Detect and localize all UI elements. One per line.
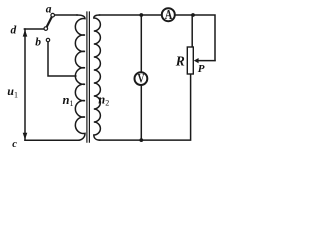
top wire secondary to ammeter: [100, 14, 162, 16]
transformer secondary winding n2: [94, 15, 101, 140]
resistor branch wire from junction: [191, 15, 193, 48]
svg-text:V: V: [138, 72, 145, 86]
resistor lower lead and bottom wire to voltmeter junction: [100, 74, 191, 140]
top wire a to primary winding: [55, 14, 77, 16]
contact a circle: [51, 13, 55, 17]
voltmeter branch upper wire: [140, 15, 142, 73]
contact b circle: [46, 38, 49, 41]
wiper wire to arrow: [198, 60, 215, 62]
wiper arrow P: [194, 58, 199, 63]
wire left rail d-c: [24, 29, 26, 140]
switch pivot circle: [44, 27, 48, 31]
top wire ammeter to top-right corner, right drop: [174, 15, 215, 60]
junction dot voltmeter top: [139, 13, 143, 17]
svg-text:P: P: [198, 63, 205, 75]
transformer core line right: [88, 12, 90, 142]
svg-text:c: c: [12, 139, 17, 150]
svg-text:R: R: [175, 53, 185, 68]
voltmeter branch lower wire: [140, 85, 142, 140]
resistor R body: [187, 47, 193, 74]
wire d to switch pivot: [24, 28, 44, 30]
svg-text:a: a: [46, 3, 52, 15]
voltmeter V: [135, 72, 148, 86]
arrow up near d (u1 direction): [23, 30, 28, 37]
ammeter A: [162, 7, 175, 22]
junction dot resistor branch: [191, 13, 195, 17]
transformer primary winding n1: [75, 15, 85, 140]
arrow down near c: [23, 133, 28, 140]
wire b tap to winding: [48, 42, 76, 76]
junction dot voltmeter bottom: [139, 138, 143, 142]
transformer core line left: [86, 12, 88, 142]
svg-text:A: A: [165, 7, 173, 22]
bottom wire c to primary winding: [25, 139, 79, 141]
switch arm: [47, 17, 52, 27]
svg-text:b: b: [35, 36, 41, 48]
svg-text:d: d: [11, 24, 17, 36]
